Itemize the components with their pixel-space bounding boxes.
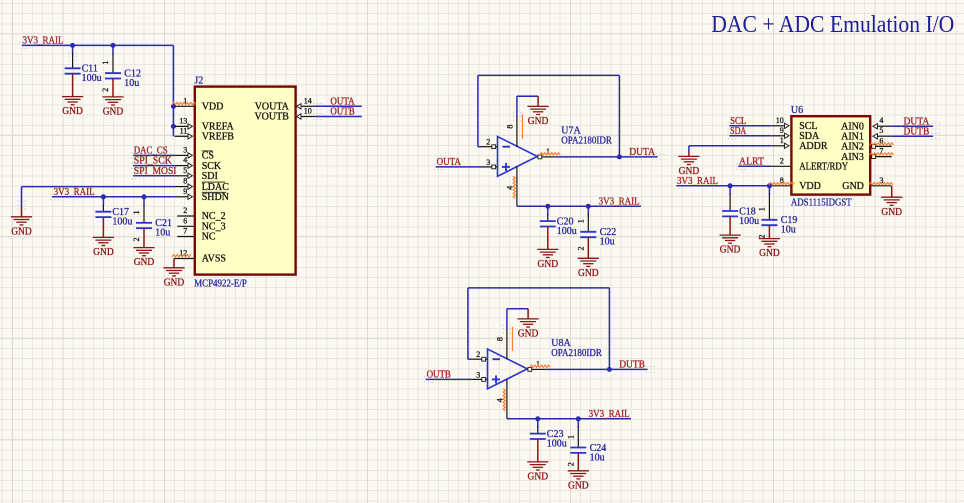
svg-text:7: 7 <box>183 227 187 236</box>
svg-text:VDD: VDD <box>799 181 821 192</box>
svg-text:6: 6 <box>183 216 187 225</box>
svg-text:ALERT/RDY: ALERT/RDY <box>799 162 848 173</box>
svg-text:GND: GND <box>528 472 549 483</box>
svg-text:9: 9 <box>780 126 784 135</box>
svg-text:GND: GND <box>568 480 589 491</box>
svg-text:2: 2 <box>476 350 480 359</box>
svg-text:NC: NC <box>202 232 216 243</box>
svg-text:DUTB: DUTB <box>619 360 645 371</box>
svg-text:DUTA: DUTA <box>629 147 656 158</box>
svg-text:2: 2 <box>758 235 767 239</box>
svg-text:13: 13 <box>179 116 187 125</box>
svg-text:3V3_RAIL: 3V3_RAIL <box>599 196 640 207</box>
svg-text:GND: GND <box>842 181 864 192</box>
svg-text:J2: J2 <box>194 76 203 87</box>
svg-text:3: 3 <box>476 370 480 379</box>
svg-text:10u: 10u <box>600 237 615 248</box>
svg-text:3: 3 <box>183 145 187 154</box>
svg-text:AVSS: AVSS <box>202 254 226 265</box>
svg-text:1: 1 <box>567 435 576 439</box>
svg-text:8: 8 <box>495 337 504 341</box>
svg-text:OPA2180IDR: OPA2180IDR <box>561 136 612 147</box>
svg-text:9: 9 <box>183 187 187 196</box>
svg-text:GND: GND <box>759 248 780 259</box>
svg-text:ADDR: ADDR <box>799 141 828 152</box>
svg-text:10: 10 <box>304 107 312 116</box>
svg-text:5: 5 <box>879 126 883 135</box>
svg-text:GND: GND <box>518 329 539 340</box>
svg-text:100u: 100u <box>547 438 567 449</box>
svg-text:VREFB: VREFB <box>202 132 235 143</box>
svg-text:MCP4922-E/P: MCP4922-E/P <box>194 278 247 289</box>
svg-text:100u: 100u <box>557 226 577 237</box>
svg-text:AIN3: AIN3 <box>841 152 864 163</box>
svg-text:10u: 10u <box>590 452 605 463</box>
svg-text:1: 1 <box>132 210 141 214</box>
svg-text:OPA2180IDR: OPA2180IDR <box>551 348 602 359</box>
svg-text:GND: GND <box>93 247 114 258</box>
svg-text:GND: GND <box>103 107 124 118</box>
svg-text:5: 5 <box>183 166 187 175</box>
svg-text:ADS1115IDGST: ADS1115IDGST <box>791 197 852 208</box>
svg-text:SHDN: SHDN <box>202 192 229 203</box>
svg-text:10: 10 <box>776 116 784 125</box>
svg-text:GND: GND <box>164 277 185 288</box>
svg-text:2: 2 <box>101 88 110 92</box>
svg-text:100u: 100u <box>82 73 102 84</box>
svg-text:1: 1 <box>101 61 110 65</box>
svg-text:GND: GND <box>881 207 902 218</box>
svg-text:OUTA: OUTA <box>437 157 462 168</box>
svg-text:8: 8 <box>505 125 514 129</box>
svg-text:2: 2 <box>780 156 784 165</box>
svg-text:SDI: SDI <box>202 171 218 182</box>
svg-text:2: 2 <box>132 238 141 242</box>
svg-text:100u: 100u <box>739 216 759 227</box>
svg-text:GND: GND <box>528 116 549 127</box>
svg-text:GND: GND <box>62 106 83 117</box>
svg-text:U8A: U8A <box>551 338 571 349</box>
svg-text:1: 1 <box>758 207 767 211</box>
svg-text:U7A: U7A <box>561 125 581 136</box>
svg-text:GND: GND <box>720 245 741 256</box>
svg-text:U6: U6 <box>791 105 803 116</box>
svg-text:100u: 100u <box>112 217 132 228</box>
svg-text:1: 1 <box>780 136 784 145</box>
svg-text:3V3_RAIL: 3V3_RAIL <box>589 409 630 420</box>
svg-text:1: 1 <box>577 219 586 223</box>
svg-text:GND: GND <box>578 268 599 279</box>
svg-text:DUTB: DUTB <box>904 126 930 137</box>
svg-text:10u: 10u <box>781 225 796 236</box>
svg-text:2: 2 <box>183 206 187 215</box>
svg-text:14: 14 <box>304 96 312 105</box>
svg-text:2: 2 <box>567 462 576 466</box>
svg-text:2: 2 <box>577 247 586 251</box>
svg-text:VOUTB: VOUTB <box>254 112 289 123</box>
svg-text:GND: GND <box>538 259 559 270</box>
svg-text:VDD: VDD <box>202 102 224 113</box>
svg-text:OUTB: OUTB <box>427 370 452 381</box>
svg-text:10u: 10u <box>155 228 170 239</box>
svg-text:10u: 10u <box>124 78 139 89</box>
svg-text:OUTB: OUTB <box>330 107 355 118</box>
svg-text:3: 3 <box>486 158 490 167</box>
svg-text:2: 2 <box>486 138 490 147</box>
svg-text:8: 8 <box>183 177 187 186</box>
svg-text:11: 11 <box>180 126 188 135</box>
svg-text:GND: GND <box>11 226 32 237</box>
svg-text:4: 4 <box>879 116 883 125</box>
svg-text:4: 4 <box>183 156 187 165</box>
svg-text:GND: GND <box>134 257 155 268</box>
svg-text:DAC + ADC Emulation I/O: DAC + ADC Emulation I/O <box>711 12 954 38</box>
